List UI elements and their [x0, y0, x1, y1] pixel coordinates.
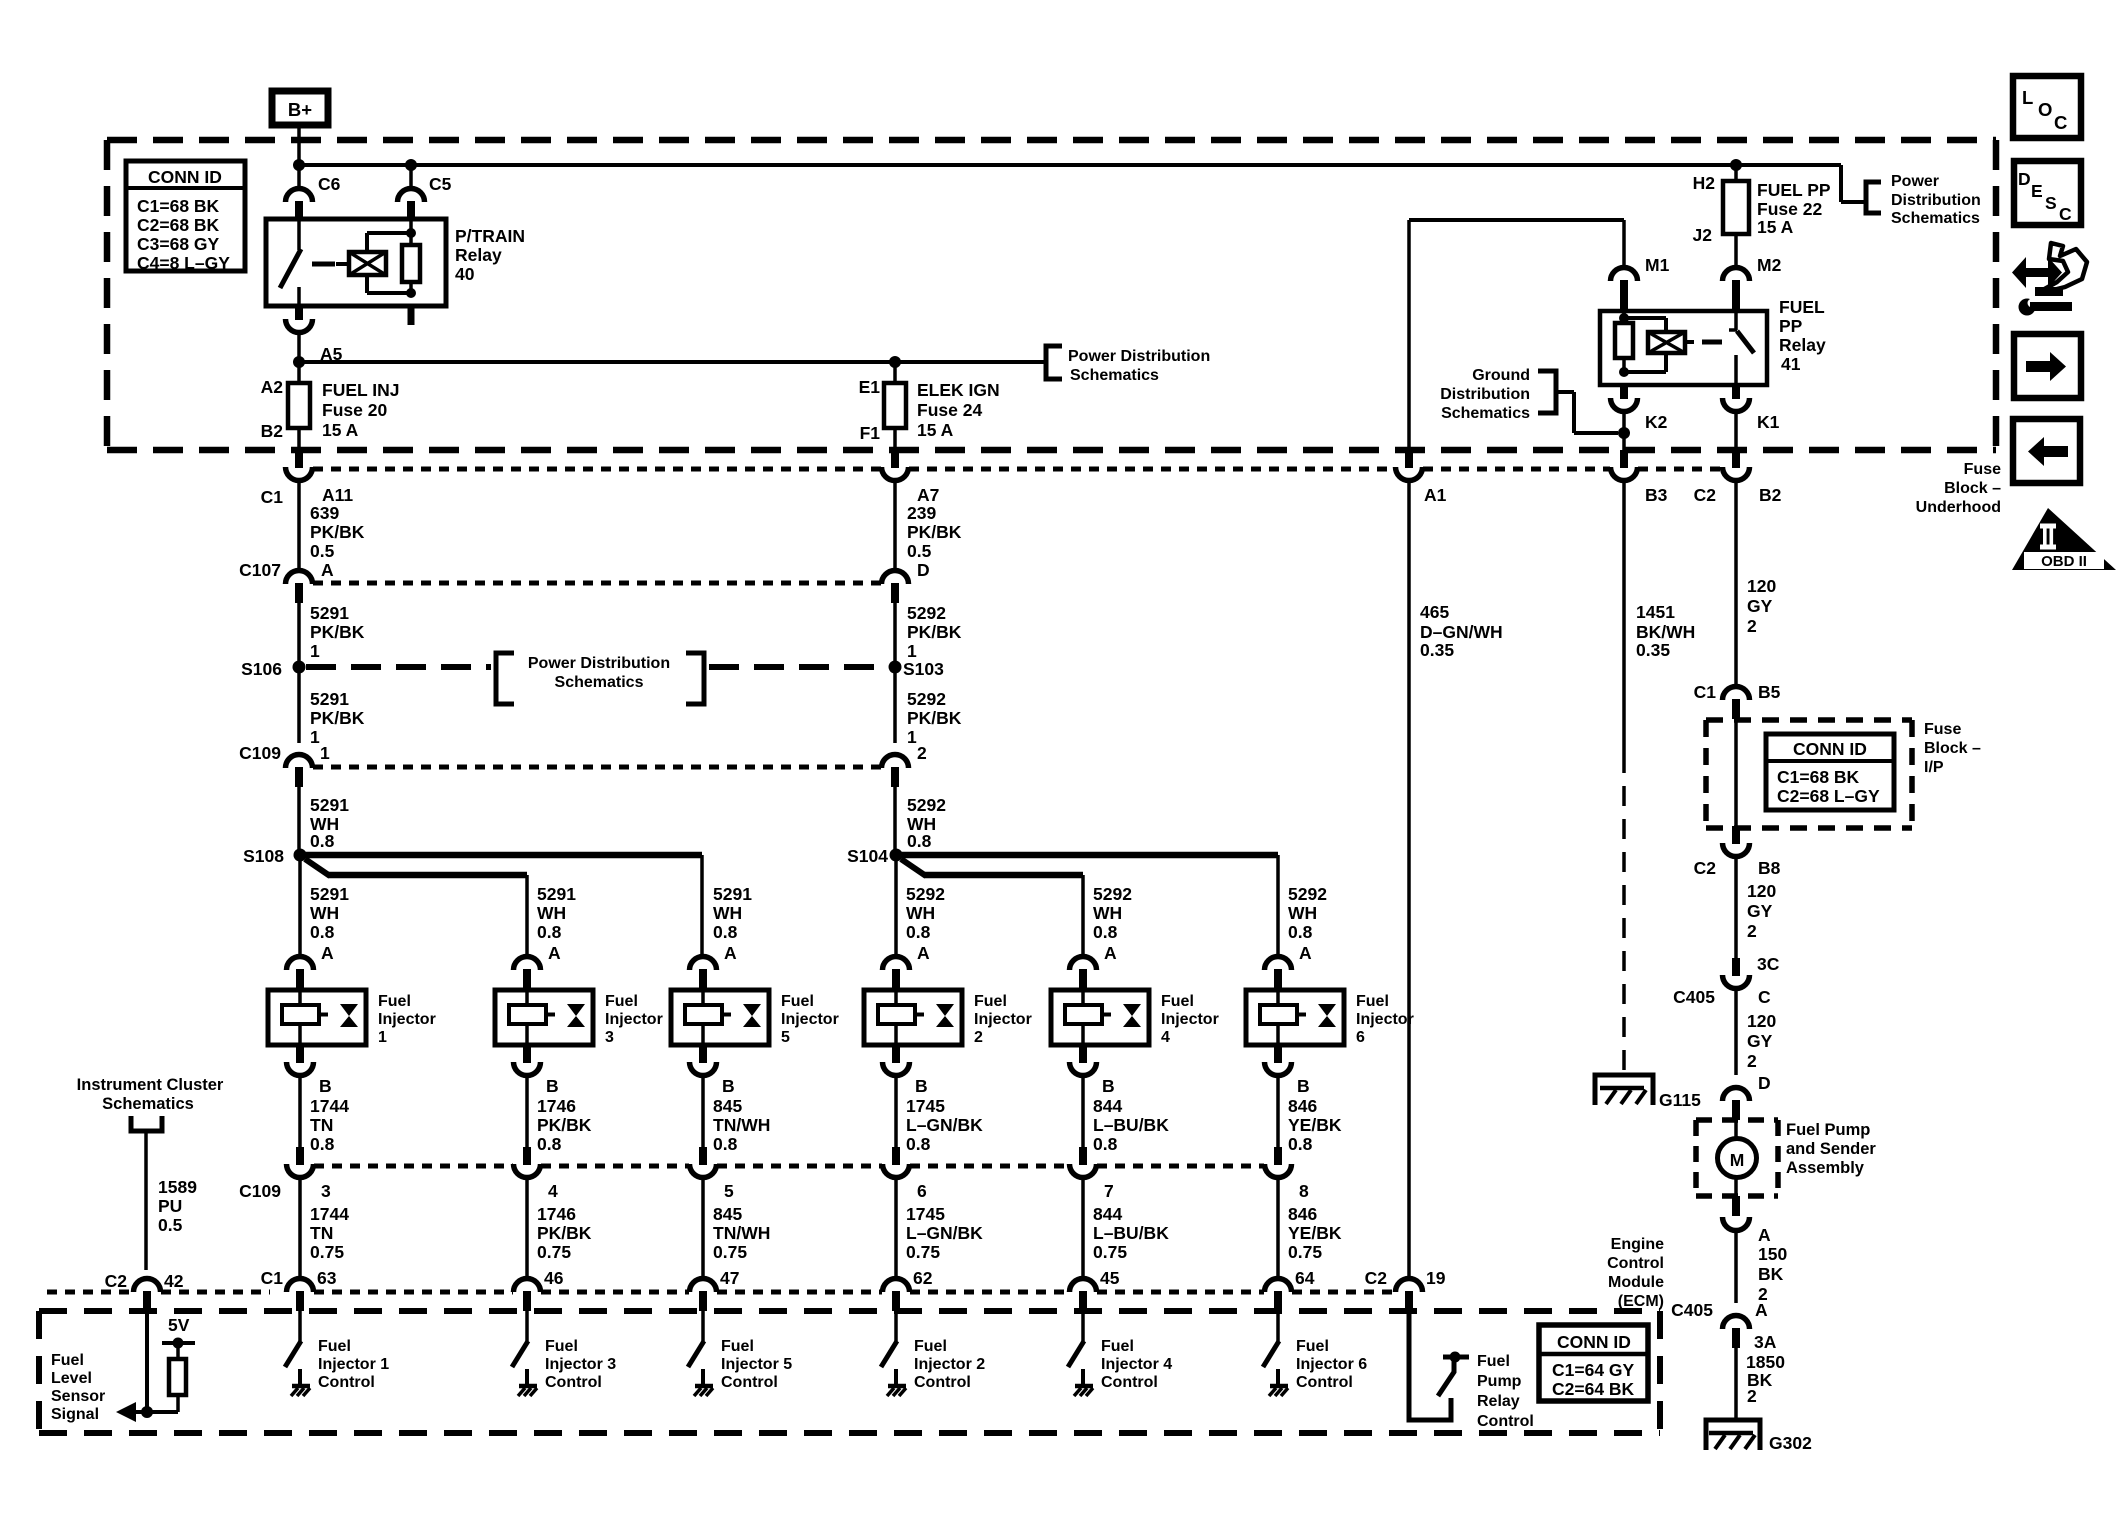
svg-text:C5: C5 [429, 174, 452, 194]
svg-text:4: 4 [1161, 1029, 1170, 1046]
svg-text:0.8: 0.8 [907, 831, 932, 851]
svg-text:1744: 1744 [310, 1204, 349, 1224]
svg-text:0.8: 0.8 [537, 1134, 562, 1154]
svg-text:M1: M1 [1645, 255, 1670, 275]
svg-text:Control: Control [545, 1374, 602, 1391]
svg-text:5291: 5291 [310, 689, 349, 709]
svg-text:Fuel: Fuel [1296, 1338, 1329, 1355]
svg-text:Injector: Injector [1356, 1011, 1414, 1028]
svg-text:A7: A7 [917, 485, 939, 505]
svg-text:47: 47 [720, 1268, 739, 1288]
svg-text:845: 845 [713, 1096, 742, 1116]
svg-text:Injector 4: Injector 4 [1101, 1356, 1172, 1373]
svg-text:62: 62 [913, 1268, 933, 1288]
svg-text:A: A [1755, 1300, 1768, 1320]
svg-text:M2: M2 [1757, 255, 1782, 275]
svg-text:J2: J2 [1693, 225, 1713, 245]
svg-text:Module: Module [1608, 1274, 1664, 1291]
svg-text:5292: 5292 [1093, 884, 1132, 904]
svg-text:1451: 1451 [1636, 602, 1675, 622]
svg-text:Instrument Cluster: Instrument Cluster [77, 1076, 224, 1094]
svg-text:Injector 3: Injector 3 [545, 1356, 616, 1373]
svg-text:CONN ID: CONN ID [148, 167, 222, 187]
svg-text:5: 5 [781, 1029, 790, 1046]
svg-text:639: 639 [310, 503, 339, 523]
svg-text:2: 2 [917, 743, 927, 763]
svg-text:Schematics: Schematics [1441, 405, 1530, 422]
svg-text:TN/WH: TN/WH [713, 1223, 770, 1243]
svg-text:19: 19 [1426, 1268, 1446, 1288]
svg-text:S106: S106 [241, 659, 282, 679]
svg-text:0.75: 0.75 [537, 1242, 571, 1262]
svg-text:C2: C2 [105, 1271, 128, 1291]
svg-text:844: 844 [1093, 1204, 1122, 1224]
svg-text:A1: A1 [1424, 485, 1447, 505]
svg-text:B8: B8 [1758, 858, 1781, 878]
svg-text:5292: 5292 [907, 689, 946, 709]
svg-text:1745: 1745 [906, 1204, 945, 1224]
svg-text:G302: G302 [1769, 1433, 1812, 1453]
svg-text:Ground: Ground [1472, 367, 1530, 384]
svg-text:64: 64 [1295, 1268, 1315, 1288]
svg-text:Schematics: Schematics [555, 674, 644, 691]
svg-text:0.75: 0.75 [1093, 1242, 1127, 1262]
svg-text:PK/BK: PK/BK [537, 1115, 592, 1135]
svg-text:1746: 1746 [537, 1204, 576, 1224]
svg-text:Injector 2: Injector 2 [914, 1356, 985, 1373]
svg-text:A: A [1758, 1225, 1771, 1245]
svg-text:E1: E1 [859, 377, 881, 397]
svg-text:C: C [1758, 987, 1771, 1007]
svg-text:Relay: Relay [455, 245, 502, 265]
svg-text:Fuse 20: Fuse 20 [322, 400, 387, 420]
svg-text:Block –: Block – [1924, 740, 1981, 757]
svg-text:Injector 5: Injector 5 [721, 1356, 792, 1373]
svg-text:Power: Power [1891, 173, 1939, 190]
svg-text:B2: B2 [1759, 485, 1782, 505]
svg-text:1: 1 [310, 641, 320, 661]
svg-text:15 A: 15 A [322, 420, 359, 440]
svg-text:845: 845 [713, 1204, 742, 1224]
svg-text:C1=68 BK: C1=68 BK [137, 196, 220, 216]
svg-text:1: 1 [310, 727, 320, 747]
svg-text:YE/BK: YE/BK [1288, 1223, 1342, 1243]
svg-text:1: 1 [320, 743, 330, 763]
svg-text:Fuel: Fuel [914, 1338, 947, 1355]
svg-text:5291: 5291 [310, 603, 349, 623]
svg-text:D: D [917, 560, 930, 580]
svg-text:Assembly: Assembly [1786, 1159, 1865, 1177]
svg-text:E: E [2031, 181, 2043, 201]
svg-text:0.8: 0.8 [310, 831, 335, 851]
svg-text:Fuel Pump: Fuel Pump [1786, 1121, 1870, 1139]
svg-text:C2=68 BK: C2=68 BK [137, 215, 220, 235]
svg-text:Schematics: Schematics [1070, 367, 1159, 384]
svg-text:PK/BK: PK/BK [907, 622, 962, 642]
svg-text:A: A [548, 943, 561, 963]
svg-text:A2: A2 [261, 377, 284, 397]
svg-text:L–BU/BK: L–BU/BK [1093, 1223, 1169, 1243]
svg-text:0.8: 0.8 [310, 922, 335, 942]
svg-text:0.8: 0.8 [906, 1134, 931, 1154]
svg-text:A: A [321, 943, 334, 963]
svg-text:A: A [321, 560, 334, 580]
svg-text:BK/WH: BK/WH [1636, 622, 1695, 642]
svg-text:C2: C2 [1694, 858, 1717, 878]
svg-text:B: B [1102, 1076, 1115, 1096]
svg-text:0.5: 0.5 [907, 541, 932, 561]
svg-text:WH: WH [1093, 903, 1122, 923]
svg-text:Sensor: Sensor [51, 1388, 105, 1405]
svg-text:PK/BK: PK/BK [310, 622, 365, 642]
svg-text:B: B [1297, 1076, 1310, 1096]
svg-text:S108: S108 [243, 846, 284, 866]
svg-text:0.8: 0.8 [713, 922, 738, 942]
svg-text:C107: C107 [239, 560, 281, 580]
svg-text:YE/BK: YE/BK [1288, 1115, 1342, 1135]
svg-text:Fuse 24: Fuse 24 [917, 400, 982, 420]
svg-text:1745: 1745 [906, 1096, 945, 1116]
svg-text:3: 3 [321, 1181, 331, 1201]
svg-text:Fuel: Fuel [51, 1352, 84, 1369]
svg-text:L: L [2022, 87, 2033, 108]
svg-text:6: 6 [1356, 1029, 1365, 1046]
svg-text:2: 2 [1747, 921, 1757, 941]
svg-text:L–GN/BK: L–GN/BK [906, 1223, 983, 1243]
svg-text:1: 1 [907, 727, 917, 747]
svg-text:FUEL INJ: FUEL INJ [322, 380, 399, 400]
svg-text:FUEL: FUEL [1779, 297, 1825, 317]
svg-text:844: 844 [1093, 1096, 1122, 1116]
svg-text:Distribution: Distribution [1891, 192, 1981, 209]
svg-text:5291: 5291 [537, 884, 576, 904]
svg-text:Control: Control [1296, 1374, 1353, 1391]
svg-text:I/P: I/P [1924, 759, 1944, 776]
svg-text:40: 40 [455, 264, 475, 284]
svg-text:C109: C109 [239, 1181, 281, 1201]
svg-text:120: 120 [1747, 1011, 1776, 1031]
svg-text:C2=64 BK: C2=64 BK [1552, 1379, 1635, 1399]
svg-text:C1: C1 [1694, 682, 1717, 702]
svg-text:120: 120 [1747, 576, 1776, 596]
svg-text:1589: 1589 [158, 1177, 197, 1197]
svg-text:PK/BK: PK/BK [907, 522, 962, 542]
svg-text:846: 846 [1288, 1204, 1317, 1224]
svg-text:Fuel: Fuel [545, 1338, 578, 1355]
svg-text:A11: A11 [322, 485, 353, 505]
svg-text:Schematics: Schematics [102, 1095, 194, 1113]
svg-text:S103: S103 [903, 659, 944, 679]
svg-text:15 A: 15 A [1757, 217, 1794, 237]
svg-text:3C: 3C [1757, 954, 1780, 974]
svg-text:C4=8 L–GY: C4=8 L–GY [137, 253, 230, 273]
svg-text:A: A [1299, 943, 1312, 963]
svg-text:0.75: 0.75 [310, 1242, 344, 1262]
svg-text:ELEK IGN: ELEK IGN [917, 380, 1000, 400]
svg-text:C6: C6 [318, 174, 341, 194]
svg-text:5292: 5292 [907, 603, 946, 623]
svg-text:0.8: 0.8 [906, 922, 931, 942]
svg-text:PK/BK: PK/BK [310, 708, 365, 728]
svg-text:C405: C405 [1671, 1300, 1713, 1320]
svg-text:GY: GY [1747, 596, 1773, 616]
svg-text:1: 1 [907, 641, 917, 661]
svg-text:and Sender: and Sender [1786, 1140, 1876, 1158]
svg-text:Fuel: Fuel [721, 1338, 754, 1355]
svg-text:Fuel: Fuel [781, 993, 814, 1010]
svg-text:S104: S104 [847, 846, 888, 866]
svg-text:C405: C405 [1673, 987, 1715, 1007]
svg-text:Fuel: Fuel [605, 993, 638, 1010]
svg-text:Fuel: Fuel [318, 1338, 351, 1355]
svg-text:Relay: Relay [1779, 335, 1826, 355]
svg-text:Signal: Signal [51, 1406, 99, 1423]
svg-text:15 A: 15 A [917, 420, 954, 440]
svg-text:0.8: 0.8 [1093, 922, 1118, 942]
svg-text:5292: 5292 [906, 884, 945, 904]
svg-text:Injector: Injector [378, 1011, 436, 1028]
svg-text:Fuel: Fuel [974, 993, 1007, 1010]
svg-text:Control: Control [1101, 1374, 1158, 1391]
svg-text:B3: B3 [1645, 485, 1668, 505]
svg-text:0.8: 0.8 [310, 1134, 335, 1154]
svg-text:5292: 5292 [1288, 884, 1327, 904]
svg-text:C1=64 GY: C1=64 GY [1552, 1360, 1635, 1380]
svg-text:Control: Control [914, 1374, 971, 1391]
svg-text:Fuel: Fuel [1356, 993, 1389, 1010]
svg-text:K2: K2 [1645, 412, 1668, 432]
svg-text:0.8: 0.8 [1288, 922, 1313, 942]
svg-text:150: 150 [1758, 1244, 1787, 1264]
svg-text:WH: WH [310, 903, 339, 923]
svg-text:1746: 1746 [537, 1096, 576, 1116]
svg-text:WH: WH [713, 903, 742, 923]
svg-text:(ECM): (ECM) [1618, 1293, 1664, 1310]
svg-text:7: 7 [1104, 1181, 1114, 1201]
svg-text:L–BU/BK: L–BU/BK [1093, 1115, 1169, 1135]
svg-text:Injector: Injector [605, 1011, 663, 1028]
svg-text:Control: Control [1607, 1255, 1664, 1272]
svg-text:C2=68 L–GY: C2=68 L–GY [1777, 786, 1880, 806]
svg-text:5291: 5291 [310, 795, 349, 815]
svg-text:120: 120 [1747, 881, 1776, 901]
svg-text:C: C [2054, 112, 2067, 133]
svg-text:S: S [2045, 193, 2057, 213]
svg-text:45: 45 [1100, 1268, 1120, 1288]
svg-text:B: B [915, 1076, 928, 1096]
svg-text:0.35: 0.35 [1636, 640, 1670, 660]
svg-text:Fuse 22: Fuse 22 [1757, 199, 1822, 219]
svg-text:Fuse: Fuse [1924, 721, 1961, 738]
svg-text:1: 1 [378, 1029, 387, 1046]
svg-text:5V: 5V [168, 1315, 190, 1335]
svg-text:A: A [1104, 943, 1117, 963]
svg-text:0.75: 0.75 [906, 1242, 940, 1262]
svg-text:TN: TN [310, 1115, 333, 1135]
svg-text:0.8: 0.8 [1288, 1134, 1313, 1154]
svg-text:2: 2 [1747, 616, 1757, 636]
svg-text:PP: PP [1779, 316, 1803, 336]
svg-text:Fuse: Fuse [1964, 461, 2001, 478]
svg-text:WH: WH [906, 903, 935, 923]
svg-text:5291: 5291 [310, 884, 349, 904]
svg-text:O: O [2038, 99, 2052, 120]
svg-text:K1: K1 [1757, 412, 1780, 432]
svg-text:1850: 1850 [1746, 1352, 1785, 1372]
svg-text:D: D [2018, 169, 2031, 189]
svg-text:2: 2 [974, 1029, 983, 1046]
svg-text:0.5: 0.5 [158, 1215, 183, 1235]
svg-text:846: 846 [1288, 1096, 1317, 1116]
svg-text:C1: C1 [261, 1268, 284, 1288]
svg-text:Injector: Injector [781, 1011, 839, 1028]
svg-text:PU: PU [158, 1196, 182, 1216]
svg-text:H2: H2 [1693, 173, 1716, 193]
svg-text:F1: F1 [860, 423, 881, 443]
svg-text:B+: B+ [288, 99, 312, 120]
svg-text:A: A [917, 943, 930, 963]
svg-text:Block –: Block – [1944, 480, 2001, 497]
svg-text:C: C [2059, 204, 2072, 224]
svg-text:Fuel: Fuel [1477, 1353, 1510, 1370]
svg-text:6: 6 [917, 1181, 927, 1201]
svg-text:WH: WH [1288, 903, 1317, 923]
svg-text:C109: C109 [239, 743, 281, 763]
svg-text:TN: TN [310, 1223, 333, 1243]
svg-text:PK/BK: PK/BK [907, 708, 962, 728]
svg-text:42: 42 [164, 1271, 184, 1291]
svg-text:Pump: Pump [1477, 1373, 1522, 1390]
svg-text:0.35: 0.35 [1420, 640, 1454, 660]
svg-text:C2: C2 [1365, 1268, 1388, 1288]
svg-text:Relay: Relay [1477, 1393, 1520, 1410]
svg-text:3: 3 [605, 1029, 614, 1046]
svg-text:0.8: 0.8 [1093, 1134, 1118, 1154]
svg-text:5291: 5291 [713, 884, 752, 904]
svg-text:C1: C1 [261, 487, 284, 507]
svg-text:239: 239 [907, 503, 936, 523]
svg-text:3A: 3A [1754, 1332, 1777, 1352]
svg-text:M: M [1730, 1150, 1745, 1170]
svg-text:46: 46 [544, 1268, 564, 1288]
svg-text:CONN ID: CONN ID [1557, 1332, 1631, 1352]
svg-text:41: 41 [1781, 354, 1801, 374]
svg-text:Level: Level [51, 1370, 92, 1387]
svg-text:Injector 1: Injector 1 [318, 1356, 389, 1373]
svg-text:Schematics: Schematics [1891, 210, 1980, 227]
svg-text:Fuel: Fuel [1101, 1338, 1134, 1355]
svg-text:Control: Control [721, 1374, 778, 1391]
svg-text:D–GN/WH: D–GN/WH [1420, 622, 1503, 642]
svg-text:PK/BK: PK/BK [310, 522, 365, 542]
svg-text:P/TRAIN: P/TRAIN [455, 226, 525, 246]
svg-text:B2: B2 [261, 421, 284, 441]
svg-text:Fuel: Fuel [378, 993, 411, 1010]
svg-text:D: D [1758, 1073, 1771, 1093]
svg-text:A: A [724, 943, 737, 963]
svg-text:TN/WH: TN/WH [713, 1115, 770, 1135]
svg-text:8: 8 [1299, 1181, 1309, 1201]
svg-text:5292: 5292 [907, 795, 946, 815]
svg-text:0.8: 0.8 [537, 922, 562, 942]
svg-text:WH: WH [537, 903, 566, 923]
svg-text:L–GN/BK: L–GN/BK [906, 1115, 983, 1135]
svg-text:C2: C2 [1694, 485, 1717, 505]
svg-text:Underhood: Underhood [1916, 499, 2001, 516]
svg-text:465: 465 [1420, 602, 1449, 622]
svg-text:B5: B5 [1758, 682, 1781, 702]
svg-text:0.5: 0.5 [310, 541, 335, 561]
svg-text:GY: GY [1747, 901, 1773, 921]
svg-text:Power Distribution: Power Distribution [1068, 348, 1210, 365]
svg-text:0.75: 0.75 [1288, 1242, 1322, 1262]
svg-text:5: 5 [724, 1181, 734, 1201]
svg-text:Injector 6: Injector 6 [1296, 1356, 1367, 1373]
svg-text:BK: BK [1758, 1264, 1784, 1284]
svg-text:CONN ID: CONN ID [1793, 739, 1867, 759]
svg-text:B: B [546, 1076, 559, 1096]
svg-text:Control: Control [1477, 1413, 1534, 1430]
svg-text:0.8: 0.8 [713, 1134, 738, 1154]
svg-text:OBD II: OBD II [2041, 553, 2087, 570]
svg-text:Engine: Engine [1611, 1236, 1664, 1253]
svg-text:0.75: 0.75 [713, 1242, 747, 1262]
svg-text:G115: G115 [1659, 1090, 1701, 1110]
svg-text:B: B [722, 1076, 735, 1096]
svg-text:C3=68 GY: C3=68 GY [137, 234, 220, 254]
svg-text:2: 2 [1747, 1386, 1757, 1406]
svg-text:Injector: Injector [974, 1011, 1032, 1028]
svg-text:4: 4 [548, 1181, 558, 1201]
svg-text:Control: Control [318, 1374, 375, 1391]
svg-text:Injector: Injector [1161, 1011, 1219, 1028]
svg-text:Distribution: Distribution [1440, 386, 1530, 403]
svg-text:C1=68 BK: C1=68 BK [1777, 767, 1860, 787]
svg-text:1744: 1744 [310, 1096, 349, 1116]
svg-text:GY: GY [1747, 1031, 1773, 1051]
svg-text:63: 63 [317, 1268, 337, 1288]
svg-text:Power Distribution: Power Distribution [528, 655, 670, 672]
svg-text:FUEL PP: FUEL PP [1757, 180, 1831, 200]
svg-text:Fuel: Fuel [1161, 993, 1194, 1010]
svg-text:2: 2 [1747, 1051, 1757, 1071]
svg-text:PK/BK: PK/BK [537, 1223, 592, 1243]
svg-text:B: B [319, 1076, 332, 1096]
